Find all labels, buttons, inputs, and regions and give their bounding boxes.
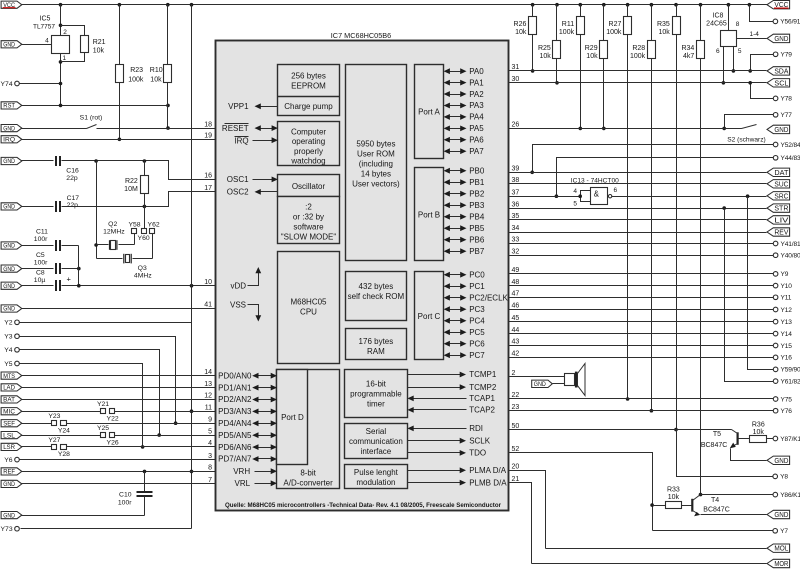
svg-text:5: 5 [573,201,577,208]
svg-text:PA0: PA0 [469,67,484,76]
wire R22 bottom to Y60 [144,194,146,229]
VPP1 label+arrow [228,102,277,111]
wire T5 emitter to GND [731,449,767,461]
PLM block [345,465,408,489]
node Y14 [773,331,792,338]
IC5 pin 2 riser to VCC [61,5,68,37]
svg-text:S2 (schwarz): S2 (schwarz) [727,136,765,143]
svg-text:Y23: Y23 [48,413,60,420]
pin 4 number (left) [208,440,212,447]
svg-text:4: 4 [573,188,577,195]
svg-text:R36: R36 [752,422,765,429]
svg-text:11: 11 [205,404,212,411]
svg-text:Y24: Y24 [58,428,70,435]
svg-text:Y6: Y6 [4,457,13,464]
svg-text:PD2/AN2: PD2/AN2 [218,395,252,404]
svg-text:PD6/AN6: PD6/AN6 [218,443,252,452]
svg-text:256 bytes: 256 bytes [291,71,326,80]
ground tag GND (S1) [1,125,22,133]
junction on VCC rail [579,3,583,7]
svg-text:PD1/AN1: PD1/AN1 [218,383,252,392]
pin 52 number (right) [512,446,520,453]
jumper pad Y28 [58,445,70,459]
PD2/AN2 pin label+arrow [218,395,277,404]
wire C5 to bus [62,267,81,271]
wire LSL to jumper [22,435,101,437]
junction on VCC rail [555,3,559,7]
wire pin 20 PLMA [509,471,546,549]
svg-text:timer: timer [367,399,385,408]
PB7 pin label+arrow [444,247,485,256]
svg-text:10M: 10M [124,186,138,193]
wire pin PC2 to Y11 [509,297,774,299]
node Y87/K1 [773,436,800,443]
wire Y44/83 to pin 37 [555,158,774,199]
pin 48 number (right) [512,279,520,286]
svg-text:Y62: Y62 [148,222,160,229]
svg-text:PB4: PB4 [469,212,485,221]
svg-text:36: 36 [512,201,520,208]
svg-text:VSS: VSS [230,301,246,310]
svg-text:Y27: Y27 [48,437,60,444]
svg-text:Y60: Y60 [138,235,150,242]
resistor R23 100k [116,5,144,84]
wire pin 30 SCL [509,82,767,84]
serial interface block [345,424,408,459]
svg-text:PB7: PB7 [469,247,485,256]
user ROM block [346,65,407,261]
svg-text:IC7 MC68HC05B6: IC7 MC68HC05B6 [331,31,391,40]
pin 5 number (left) [208,428,212,435]
junction on VCC rail [650,3,654,7]
node Y16 [773,355,792,362]
wire Y5 to PD6 net [20,364,145,449]
node Y56/91 [773,19,800,26]
op-amp U IC8 24C65 [706,13,736,47]
svg-text:GND: GND [3,306,15,313]
svg-text:SEF: SEF [3,420,15,427]
svg-text:38: 38 [512,177,520,184]
tag LAD [1,384,22,392]
node Y11 [773,295,791,302]
svg-text:4MHz: 4MHz [134,273,152,280]
svg-text:LSR: LSR [3,444,15,451]
svg-text:Q2: Q2 [108,221,117,228]
port B block [415,168,444,261]
pin 23 number (right) [512,404,520,411]
svg-text:SCLK: SCLK [469,436,491,445]
PLMA D/A label+arrow [408,466,507,475]
node Y74 [1,81,20,88]
wire VCC rail [22,4,768,6]
svg-text:Y7: Y7 [780,528,788,535]
wire vDD pin 10 [62,284,216,288]
wire pin 39 DAT [509,172,767,174]
svg-text:GND: GND [774,36,788,43]
svg-text:Port D: Port D [281,413,304,422]
svg-text:PB5: PB5 [469,224,485,233]
wire GND to C10 [22,515,145,517]
wire MOL [546,548,767,550]
ground tag GND (C16) [1,157,22,165]
node Y41/81 [773,241,800,248]
tag MTS [1,372,22,380]
wire R10 riser to RESET [166,83,170,130]
svg-text:5: 5 [738,48,742,55]
PA5 pin label+arrow [444,124,485,133]
svg-text:100k: 100k [559,29,575,36]
wire VCC long riser [190,5,194,529]
svg-text:432 bytes: 432 bytes [359,282,394,291]
svg-text:Y10: Y10 [781,283,793,290]
jumper pad Y21 [97,401,109,413]
svg-text:IRQ: IRQ [3,137,15,144]
svg-text:GND: GND [774,512,788,519]
svg-text:MOR: MOR [774,561,788,568]
svg-text:5950 bytes: 5950 bytes [356,139,395,148]
svg-text:7: 7 [208,477,212,484]
svg-text:PC2/ECLK: PC2/ECLK [469,293,508,302]
resistor R27 100k [606,5,631,401]
power tag VCC (left) [1,1,22,9]
wire Y3 to PD4 net [20,337,178,426]
svg-text:41: 41 [204,302,212,309]
transistor T4 BC847C [692,495,729,517]
svg-text:M68HC05: M68HC05 [290,298,327,307]
ground tag GND (C17) [1,203,22,211]
capacitor C8 10u [22,269,72,291]
svg-text:&: & [594,190,600,199]
IC8 pin 6 riser [716,47,725,85]
pin 36 number (right) [512,201,520,208]
port C block [415,272,444,360]
pin 42 number (right) [512,351,520,358]
wire pin PC1 to Y10 [509,285,774,287]
wire Y77 riser [722,115,773,131]
PD6/AN6 pin label+arrow [218,443,277,452]
wire BAT to pin 12 [22,399,216,401]
wire REF to pin 8 [22,470,216,474]
svg-text:R29: R29 [585,45,598,52]
svg-text:C5: C5 [36,252,45,259]
svg-text:IC5: IC5 [40,16,51,23]
wire SEF to jumper [22,423,52,425]
svg-text:R27: R27 [609,21,622,28]
svg-text:Y16: Y16 [781,355,793,362]
wire OSC2 net [62,192,216,209]
node Y61/82 [773,378,800,385]
svg-text:PA1: PA1 [469,78,484,87]
svg-text:PLMA D/A: PLMA D/A [469,466,507,475]
svg-text:6: 6 [614,187,618,194]
op-amp U IC5 TL7757 body [33,16,70,54]
svg-text:Y13: Y13 [781,319,793,326]
svg-text:Y52/84: Y52/84 [781,142,800,149]
node Y7 [773,528,788,535]
svg-text:PB0: PB0 [469,166,485,175]
jumper pad Y26 [107,433,119,447]
pin 13 number (left) [204,381,212,388]
svg-text:Y26: Y26 [107,439,119,446]
svg-text:BAT: BAT [3,397,15,404]
wire Y8 to RDI [677,430,773,477]
svg-text:8-bit: 8-bit [300,468,316,477]
wire Y52/84 to pin 39 [530,145,773,175]
svg-text:8: 8 [736,21,740,28]
TCMP2 label+arrow [408,383,497,392]
resistor R35 10k [657,5,681,432]
switch S1 (rot) [22,114,103,128]
svg-text:37: 37 [512,189,520,196]
svg-text:LAD: LAD [3,385,15,392]
svg-text:PA3: PA3 [469,101,484,110]
wire pin 26 to S2 [509,128,742,130]
svg-text:IRQ: IRQ [234,136,248,145]
PA2 pin label+arrow [444,90,485,99]
svg-text:PD4/AN4: PD4/AN4 [218,419,252,428]
svg-text:PD3/AN3: PD3/AN3 [218,407,252,416]
wire pin 22 TCAP1 [509,398,774,400]
ground tag GND (speaker) [532,380,565,388]
node Y12 [773,307,792,314]
node Y3 [4,334,19,341]
svg-text:GND: GND [774,127,788,134]
svg-text:User vectors): User vectors) [352,179,400,188]
svg-text:10k: 10k [150,76,162,83]
svg-text:Y40/80: Y40/80 [781,253,800,260]
svg-text:18: 18 [204,121,212,128]
wire VSS pin 41 [22,308,216,310]
port A block [415,65,444,159]
svg-text:Y22: Y22 [107,416,119,423]
svg-text:4k7: 4k7 [683,53,694,60]
svg-text:Y58: Y58 [128,222,140,229]
tag MOL [767,544,790,553]
wire R23 riser to IRQ [118,83,122,142]
svg-text:12: 12 [204,393,212,400]
svg-text:100k: 100k [128,76,144,83]
svg-text:12MHz: 12MHz [103,228,125,235]
junction on VCC rail [190,3,194,7]
svg-text:45: 45 [512,315,520,322]
wire jumper to pin 11 [115,411,216,413]
pin 26 number (right) [512,122,520,129]
PD0/AN0 pin label+arrow [218,371,277,380]
svg-text:PA4: PA4 [469,113,484,122]
junction on VCC rail [727,3,731,7]
oscillator block [278,175,340,197]
svg-text:Y61/82: Y61/82 [781,378,800,385]
svg-text:Y74: Y74 [1,81,13,88]
node Y73 [1,526,20,533]
svg-text:43: 43 [512,339,520,346]
wire OSC1 net [62,159,216,179]
wire jumper to pin 4 [67,446,216,448]
PB3 pin label+arrow [444,201,485,210]
svg-text:Serial: Serial [366,427,387,436]
svg-text:Y4: Y4 [4,347,13,354]
ground tag GND (T5) [767,456,790,465]
ground tag GND (IC8) [767,34,790,43]
pin 22 number (right) [512,392,520,399]
svg-text:LIV: LIV [774,217,788,224]
svg-text:PC1: PC1 [469,282,485,291]
svg-text:User ROM: User ROM [357,149,395,158]
svg-text:PC7: PC7 [469,351,485,360]
svg-text:"SLOW MODE": "SLOW MODE" [281,233,337,242]
svg-text:MTS: MTS [3,373,15,380]
PB0 pin label+arrow [444,166,485,175]
svg-text:C10: C10 [119,492,132,499]
resistor R28 100k [630,5,655,413]
pin 45 number (right) [512,315,520,322]
svg-text:operating: operating [292,137,325,146]
wire pin 37 to NAND [509,196,581,198]
svg-text:Y14: Y14 [781,331,793,338]
node Y2 [4,320,19,327]
svg-text:SDA: SDA [774,68,788,75]
svg-text:MIC: MIC [3,408,15,415]
wire VRL pin 7 [22,483,216,485]
pin 35 number (right) [512,213,520,220]
junction on VCC rail [602,3,606,7]
wire pin 31 SDA [509,70,767,72]
svg-text:C16: C16 [66,167,79,174]
pin 37 number (right) [512,189,520,196]
svg-text:PC3: PC3 [469,305,485,314]
vDD label+arrow [230,267,261,290]
svg-text:26: 26 [512,122,520,129]
wire Y7 [653,530,773,532]
pin 38 number (right) [512,177,520,184]
svg-text:10k: 10k [540,53,552,60]
ground tag GND (C5) [1,265,22,273]
svg-text:PA7: PA7 [469,147,484,156]
svg-text:Y3: Y3 [4,334,13,341]
wire pin 38 SUC [509,183,767,185]
svg-text:or :32 by: or :32 by [293,213,324,222]
PD5/AN5 pin label+arrow [218,431,277,440]
svg-text:SCL: SCL [774,80,788,87]
wire Q2 to Y58 [134,234,136,245]
node Y4 [4,347,19,354]
jumper pad Y22 [107,409,119,423]
svg-text:Q3: Q3 [138,265,147,272]
svg-text:OSC2: OSC2 [227,188,249,197]
svg-text:Y86/K1: Y86/K1 [780,492,800,499]
speaker LS1 [565,364,586,396]
svg-text:10µ: 10µ [34,277,46,284]
svg-text:10k: 10k [586,53,598,60]
svg-text:(including: (including [359,159,393,168]
svg-text:48: 48 [512,279,520,286]
svg-text:44: 44 [512,327,520,334]
svg-text:PA5: PA5 [469,124,484,133]
ground tag GND (S2) [767,125,790,134]
tag SCL [767,79,790,88]
svg-text:R25: R25 [538,45,551,52]
PA6 pin label+arrow [444,135,485,144]
svg-text:TDO: TDO [469,449,486,458]
svg-text:Pulse lenght: Pulse lenght [354,468,399,477]
pin 20 number (right) [512,464,520,471]
svg-text:TCMP2: TCMP2 [469,383,497,392]
pin 43 number (right) [512,339,520,346]
wire T4 collector node [701,494,773,496]
wire Y73 to REF riser [21,528,192,530]
svg-text:33: 33 [512,237,520,244]
wire pin 34 REV [509,232,767,234]
svg-text:TCAP1: TCAP1 [469,394,495,403]
wire pin PC5 to Y14 [509,333,774,335]
jumper pad Y25 [97,425,109,437]
svg-text:R22: R22 [125,178,138,185]
svg-text:Y28: Y28 [58,451,70,458]
capacitor C17 22p [22,195,80,212]
pin 30 number (right) [512,76,520,83]
tag SRC [767,192,790,201]
RESET label+arrow [222,124,278,133]
resistor R36 10k [750,422,774,443]
node Y75 [773,396,792,403]
svg-text:100k: 100k [630,53,646,60]
capacitor C11 100r [22,228,61,251]
IC5 pin 1 riser [61,54,67,106]
junction on VCC rail [674,3,678,7]
svg-text:9: 9 [208,416,212,423]
pin 47 number (right) [512,291,520,298]
pin 50 number (right) [512,423,520,430]
junction on VCC rail [699,3,703,7]
tag BAT [1,396,22,404]
pin 9 number (left) [208,416,212,423]
RAM block [346,329,407,360]
tag SUC [767,180,790,189]
svg-text:C17: C17 [67,195,80,202]
svg-text:PC4: PC4 [469,316,485,325]
wire pin 50 RDI [509,429,732,431]
svg-text:interface: interface [361,447,392,456]
pin 41 number (left) [204,302,212,309]
svg-text:6: 6 [716,48,720,55]
svg-text:100r: 100r [118,500,132,507]
TCAP1 label+arrow [407,394,495,403]
svg-text:R34: R34 [681,45,694,52]
pin 18 number (left) [204,121,212,128]
svg-text:GND: GND [3,204,15,211]
tag REV [767,228,790,237]
ground tag GND (T4) [767,510,790,519]
VRH label+arrow [233,467,277,476]
svg-text:GND: GND [774,458,788,465]
svg-text:EEPROM: EEPROM [291,81,326,90]
svg-text:Port B: Port B [418,210,440,219]
PA4 pin label+arrow [444,113,485,122]
tag LIV [767,216,790,225]
wire RST net [22,104,170,108]
node Y59/90 [773,367,800,374]
wire T4 emitter to GND [701,514,767,516]
wire Q3 to Y62 [152,234,154,259]
junction on VCC rail [748,3,752,7]
svg-text:TCAP2: TCAP2 [469,406,495,415]
TCMP1 label+arrow [408,370,497,379]
port D / A-D converter block [277,370,340,489]
svg-text:Y44/83: Y44/83 [781,155,800,162]
svg-text:OSC1: OSC1 [227,175,249,184]
svg-text:GND: GND [3,512,15,519]
svg-text:50: 50 [512,423,520,430]
